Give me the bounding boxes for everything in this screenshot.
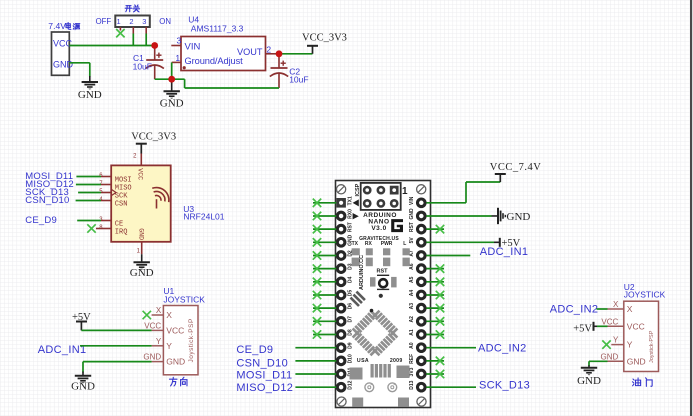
svg-text:VCC: VCC <box>144 321 161 330</box>
svg-text:GND: GND <box>53 60 74 70</box>
svg-text:VCC_3V3: VCC_3V3 <box>131 132 176 143</box>
svg-text:V3.0: V3.0 <box>371 225 386 232</box>
svg-text:TX1: TX1 <box>348 196 354 205</box>
svg-text:CSN: CSN <box>115 200 128 208</box>
svg-text:D13: D13 <box>409 380 415 389</box>
svg-text:CE: CE <box>115 220 123 228</box>
svg-text:1: 1 <box>117 17 121 26</box>
svg-text:Y: Y <box>166 341 172 351</box>
svg-text:X: X <box>166 310 172 320</box>
svg-text:GND: GND <box>166 357 185 367</box>
svg-text:5V: 5V <box>409 237 415 244</box>
svg-text:+5V: +5V <box>72 312 91 323</box>
svg-text:ADC_IN2: ADC_IN2 <box>550 303 599 315</box>
svg-text:1: 1 <box>402 186 408 197</box>
svg-text:MOSI_D11: MOSI_D11 <box>236 369 292 381</box>
svg-text:2009: 2009 <box>390 358 403 364</box>
svg-text:2: 2 <box>129 17 133 26</box>
svg-text:D7: D7 <box>348 316 354 323</box>
svg-text:GND: GND <box>71 381 95 393</box>
svg-text:10uF: 10uF <box>133 61 152 71</box>
svg-text:Joystick-PSP: Joystick-PSP <box>649 330 655 363</box>
svg-text:1: 1 <box>175 53 180 63</box>
svg-text:A4: A4 <box>409 290 415 297</box>
svg-text:GND: GND <box>130 267 154 279</box>
svg-text:Y: Y <box>613 336 619 345</box>
svg-text:MOSI: MOSI <box>115 176 132 184</box>
svg-text:RX: RX <box>365 241 373 247</box>
svg-text:NRF24L01: NRF24L01 <box>183 212 224 222</box>
svg-text:PWR: PWR <box>381 241 393 247</box>
svg-text:VOUT: VOUT <box>237 47 263 57</box>
svg-text:VCC: VCC <box>166 325 184 335</box>
svg-text:ON: ON <box>159 17 171 26</box>
svg-text:X: X <box>613 300 619 309</box>
svg-text:GND: GND <box>160 98 184 110</box>
svg-text:GND: GND <box>627 356 646 366</box>
svg-text:D9: D9 <box>348 342 354 349</box>
svg-text:D6: D6 <box>348 303 354 310</box>
svg-text:A3: A3 <box>409 303 415 310</box>
svg-text:VCC: VCC <box>627 321 645 331</box>
svg-text:SCK_D13: SCK_D13 <box>479 379 530 391</box>
svg-text:Y: Y <box>627 340 633 350</box>
svg-text:VCC_7.4V: VCC_7.4V <box>490 162 542 173</box>
svg-text:RST: RST <box>348 222 354 232</box>
svg-text:ARDUINO.CC: ARDUINO.CC <box>359 255 365 290</box>
svg-text:RST: RST <box>409 222 415 232</box>
svg-text:REF: REF <box>409 354 415 364</box>
svg-text:GND: GND <box>601 352 619 361</box>
svg-text:JOYSTICK: JOYSTICK <box>163 294 205 304</box>
svg-text:Joystick-PSP: Joystick-PSP <box>188 318 195 362</box>
svg-text:GND: GND <box>78 89 102 101</box>
svg-text:AMS1117_3.3: AMS1117_3.3 <box>191 24 244 34</box>
svg-text:A5: A5 <box>409 276 415 283</box>
svg-text:GND: GND <box>507 211 531 223</box>
svg-text:D5: D5 <box>348 290 354 297</box>
svg-text:10uF: 10uF <box>289 75 308 85</box>
svg-text:D10: D10 <box>348 354 354 363</box>
svg-text:OFF: OFF <box>96 17 112 26</box>
svg-text:GND: GND <box>143 353 161 362</box>
svg-text:VIN: VIN <box>185 42 201 53</box>
svg-text:USA: USA <box>357 358 369 364</box>
svg-text:7.4V: 7.4V <box>48 21 66 31</box>
svg-text:A0: A0 <box>409 342 415 349</box>
svg-text:JOYSTICK: JOYSTICK <box>624 290 666 300</box>
svg-text:VIN: VIN <box>409 196 415 205</box>
svg-text:MISO_D12: MISO_D12 <box>236 382 293 394</box>
svg-text:D12: D12 <box>348 380 354 389</box>
svg-text:A2: A2 <box>409 316 415 323</box>
svg-text:D4: D4 <box>348 276 354 283</box>
svg-text:L: L <box>403 241 406 247</box>
svg-text:Y: Y <box>156 337 162 346</box>
svg-text:GND: GND <box>577 375 601 387</box>
svg-text:CE_D9: CE_D9 <box>25 215 57 226</box>
svg-text:IRQ: IRQ <box>115 228 128 236</box>
svg-text:RST: RST <box>377 269 389 275</box>
svg-text:A7: A7 <box>409 250 415 257</box>
svg-text:ICSP: ICSP <box>355 183 361 196</box>
svg-text:X: X <box>627 304 633 314</box>
svg-text:CE_D9: CE_D9 <box>236 344 273 356</box>
svg-text:ADC_IN1: ADC_IN1 <box>480 246 529 258</box>
svg-text:SCK: SCK <box>115 192 128 200</box>
svg-text:VCC_3V3: VCC_3V3 <box>302 33 347 44</box>
svg-text:CSN_D10: CSN_D10 <box>25 195 69 206</box>
svg-text:GND: GND <box>138 228 145 240</box>
svg-text:A6: A6 <box>409 263 415 270</box>
svg-text:VCC: VCC <box>601 317 618 326</box>
svg-text:Ground/Adjust: Ground/Adjust <box>185 56 244 66</box>
svg-text:3: 3 <box>142 17 146 26</box>
svg-text:+5V: +5V <box>573 324 592 335</box>
svg-text:GND: GND <box>409 208 415 220</box>
svg-text:ADC_IN1: ADC_IN1 <box>38 344 87 356</box>
svg-text:MISO: MISO <box>115 184 132 192</box>
svg-text:3: 3 <box>177 36 182 46</box>
svg-text:3V3: 3V3 <box>409 367 415 376</box>
svg-text:VCC: VCC <box>137 168 144 180</box>
svg-text:VCC: VCC <box>53 38 73 48</box>
svg-text:A1: A1 <box>409 329 415 336</box>
svg-text:X: X <box>156 306 162 315</box>
svg-text:ADC_IN2: ADC_IN2 <box>478 342 527 354</box>
svg-text:CSN_D10: CSN_D10 <box>236 357 288 369</box>
svg-text:TX: TX <box>352 241 359 247</box>
